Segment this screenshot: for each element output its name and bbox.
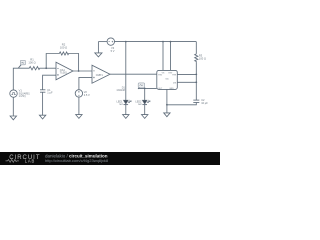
svg-text:100 Ω: 100 Ω [28, 61, 35, 65]
node feedback to output [78, 70, 80, 72]
node rail VS [162, 41, 164, 43]
svg-text:100 Ω: 100 Ω [199, 57, 206, 61]
node GND to C2 [166, 104, 168, 106]
wire C1 to ground [42, 92, 44, 115]
svg-text:THR: THR [172, 74, 177, 76]
wire probe node to IC1 [138, 87, 156, 89]
node rail RST [170, 41, 172, 43]
svg-text:LAB: LAB [25, 159, 35, 164]
wire ground to V3 [98, 41, 107, 43]
svg-text:CMP1: CMP1 [96, 74, 104, 77]
ground for LED2 [142, 115, 148, 119]
label C1 1uF [47, 88, 53, 95]
wire LED1 to ground [125, 105, 127, 115]
op-amp comparator OA2 [92, 65, 110, 83]
IC1 pin RST wire to rail [170, 42, 172, 71]
wire feedback left leg [46, 54, 58, 69]
svg-text:1 kHz): 1 kHz) [19, 95, 26, 98]
resistor R1 [28, 67, 40, 70]
IC1 pin THR wire [177, 73, 196, 75]
wire OA1 output to OA2 inverting input [73, 70, 92, 72]
label V2 2.5V [84, 90, 90, 97]
svg-text:1N4148: 1N4148 [116, 89, 125, 92]
ground for IC1 [164, 105, 170, 117]
wire LED2 to ground [144, 105, 146, 115]
voltage source V3 5V [107, 38, 114, 45]
label R1 100 Ohm [28, 58, 35, 65]
wire R3 to C2 [195, 62, 197, 100]
op-amp OA1 TL081 [56, 62, 73, 80]
ground for V1 [10, 97, 16, 120]
node feedback tap [45, 67, 47, 69]
svg-text:10 µF: 10 µF [201, 101, 208, 105]
wire op-amp non-inverting input to C1 [43, 75, 56, 89]
label V1 value [19, 89, 30, 98]
wire OA2 non-inverting input to V2 [79, 77, 92, 89]
node rail to LED1 branch [125, 41, 127, 43]
wire OA2 output to IC1 [110, 73, 157, 75]
ground for C1 [39, 115, 45, 119]
node LED2 tap [144, 88, 146, 90]
LED D1 [124, 100, 132, 105]
wire R1 to op-amp inverting input [40, 67, 56, 69]
label R2 100 Ohm [60, 43, 67, 50]
wire C2 bottom to ground node [167, 103, 196, 105]
top power rail wire [115, 41, 197, 43]
IC1 pin DIS wire [177, 81, 196, 83]
ground for LED1 [123, 115, 129, 119]
svg-text:TRG: TRG [158, 74, 163, 76]
svg-text:5 V: 5 V [111, 49, 115, 53]
svg-text:GND: GND [169, 88, 174, 90]
capacitor C1 [40, 90, 45, 92]
label LED1 lower [117, 100, 124, 106]
label R3 100 Ohm [199, 54, 206, 61]
wire rail down to LED1 [125, 42, 127, 101]
probe SP2 [138, 83, 145, 89]
svg-text:1 µF: 1 µF [47, 91, 53, 95]
wire feedback right leg [69, 54, 79, 72]
probe SP1 [18, 60, 25, 68]
svg-text:http://circuitlab.com/c/f4g23w: http://circuitlab.com/c/f4g23wq8jxk8 [45, 158, 109, 163]
resistor R3 [195, 53, 198, 62]
CircuitLab logo resistor zigzag [6, 160, 19, 163]
wire V2 to ground [78, 97, 80, 115]
IC1 pin VS wire to rail [162, 42, 164, 71]
LED D2 [142, 100, 150, 105]
IC1 GND pin wire [166, 89, 168, 104]
node DIS [195, 81, 197, 83]
ground for V2 [76, 115, 82, 119]
IC1 555 timer box [157, 70, 178, 90]
voltage source V1 (square wave) [10, 90, 17, 97]
label C2 10uF [201, 98, 208, 105]
voltage source V2 2.5V [75, 90, 82, 97]
label LED2 [135, 100, 142, 106]
wire down to LED2 [144, 88, 146, 100]
svg-text:100 Ω: 100 Ω [60, 46, 67, 50]
svg-text:TL081: TL081 [60, 72, 68, 75]
wire rail corner to R3 [195, 42, 197, 54]
resistor R2 (feedback) [59, 52, 70, 55]
footer bar [0, 152, 220, 165]
capacitor C2 [193, 100, 199, 102]
ground for top rail [95, 42, 102, 57]
svg-text:2.5 V: 2.5 V [84, 93, 90, 97]
label V3 5V [111, 46, 115, 53]
node THR [195, 74, 197, 76]
wire V1 to R1 [13, 68, 28, 90]
label D1 upper [116, 87, 125, 93]
